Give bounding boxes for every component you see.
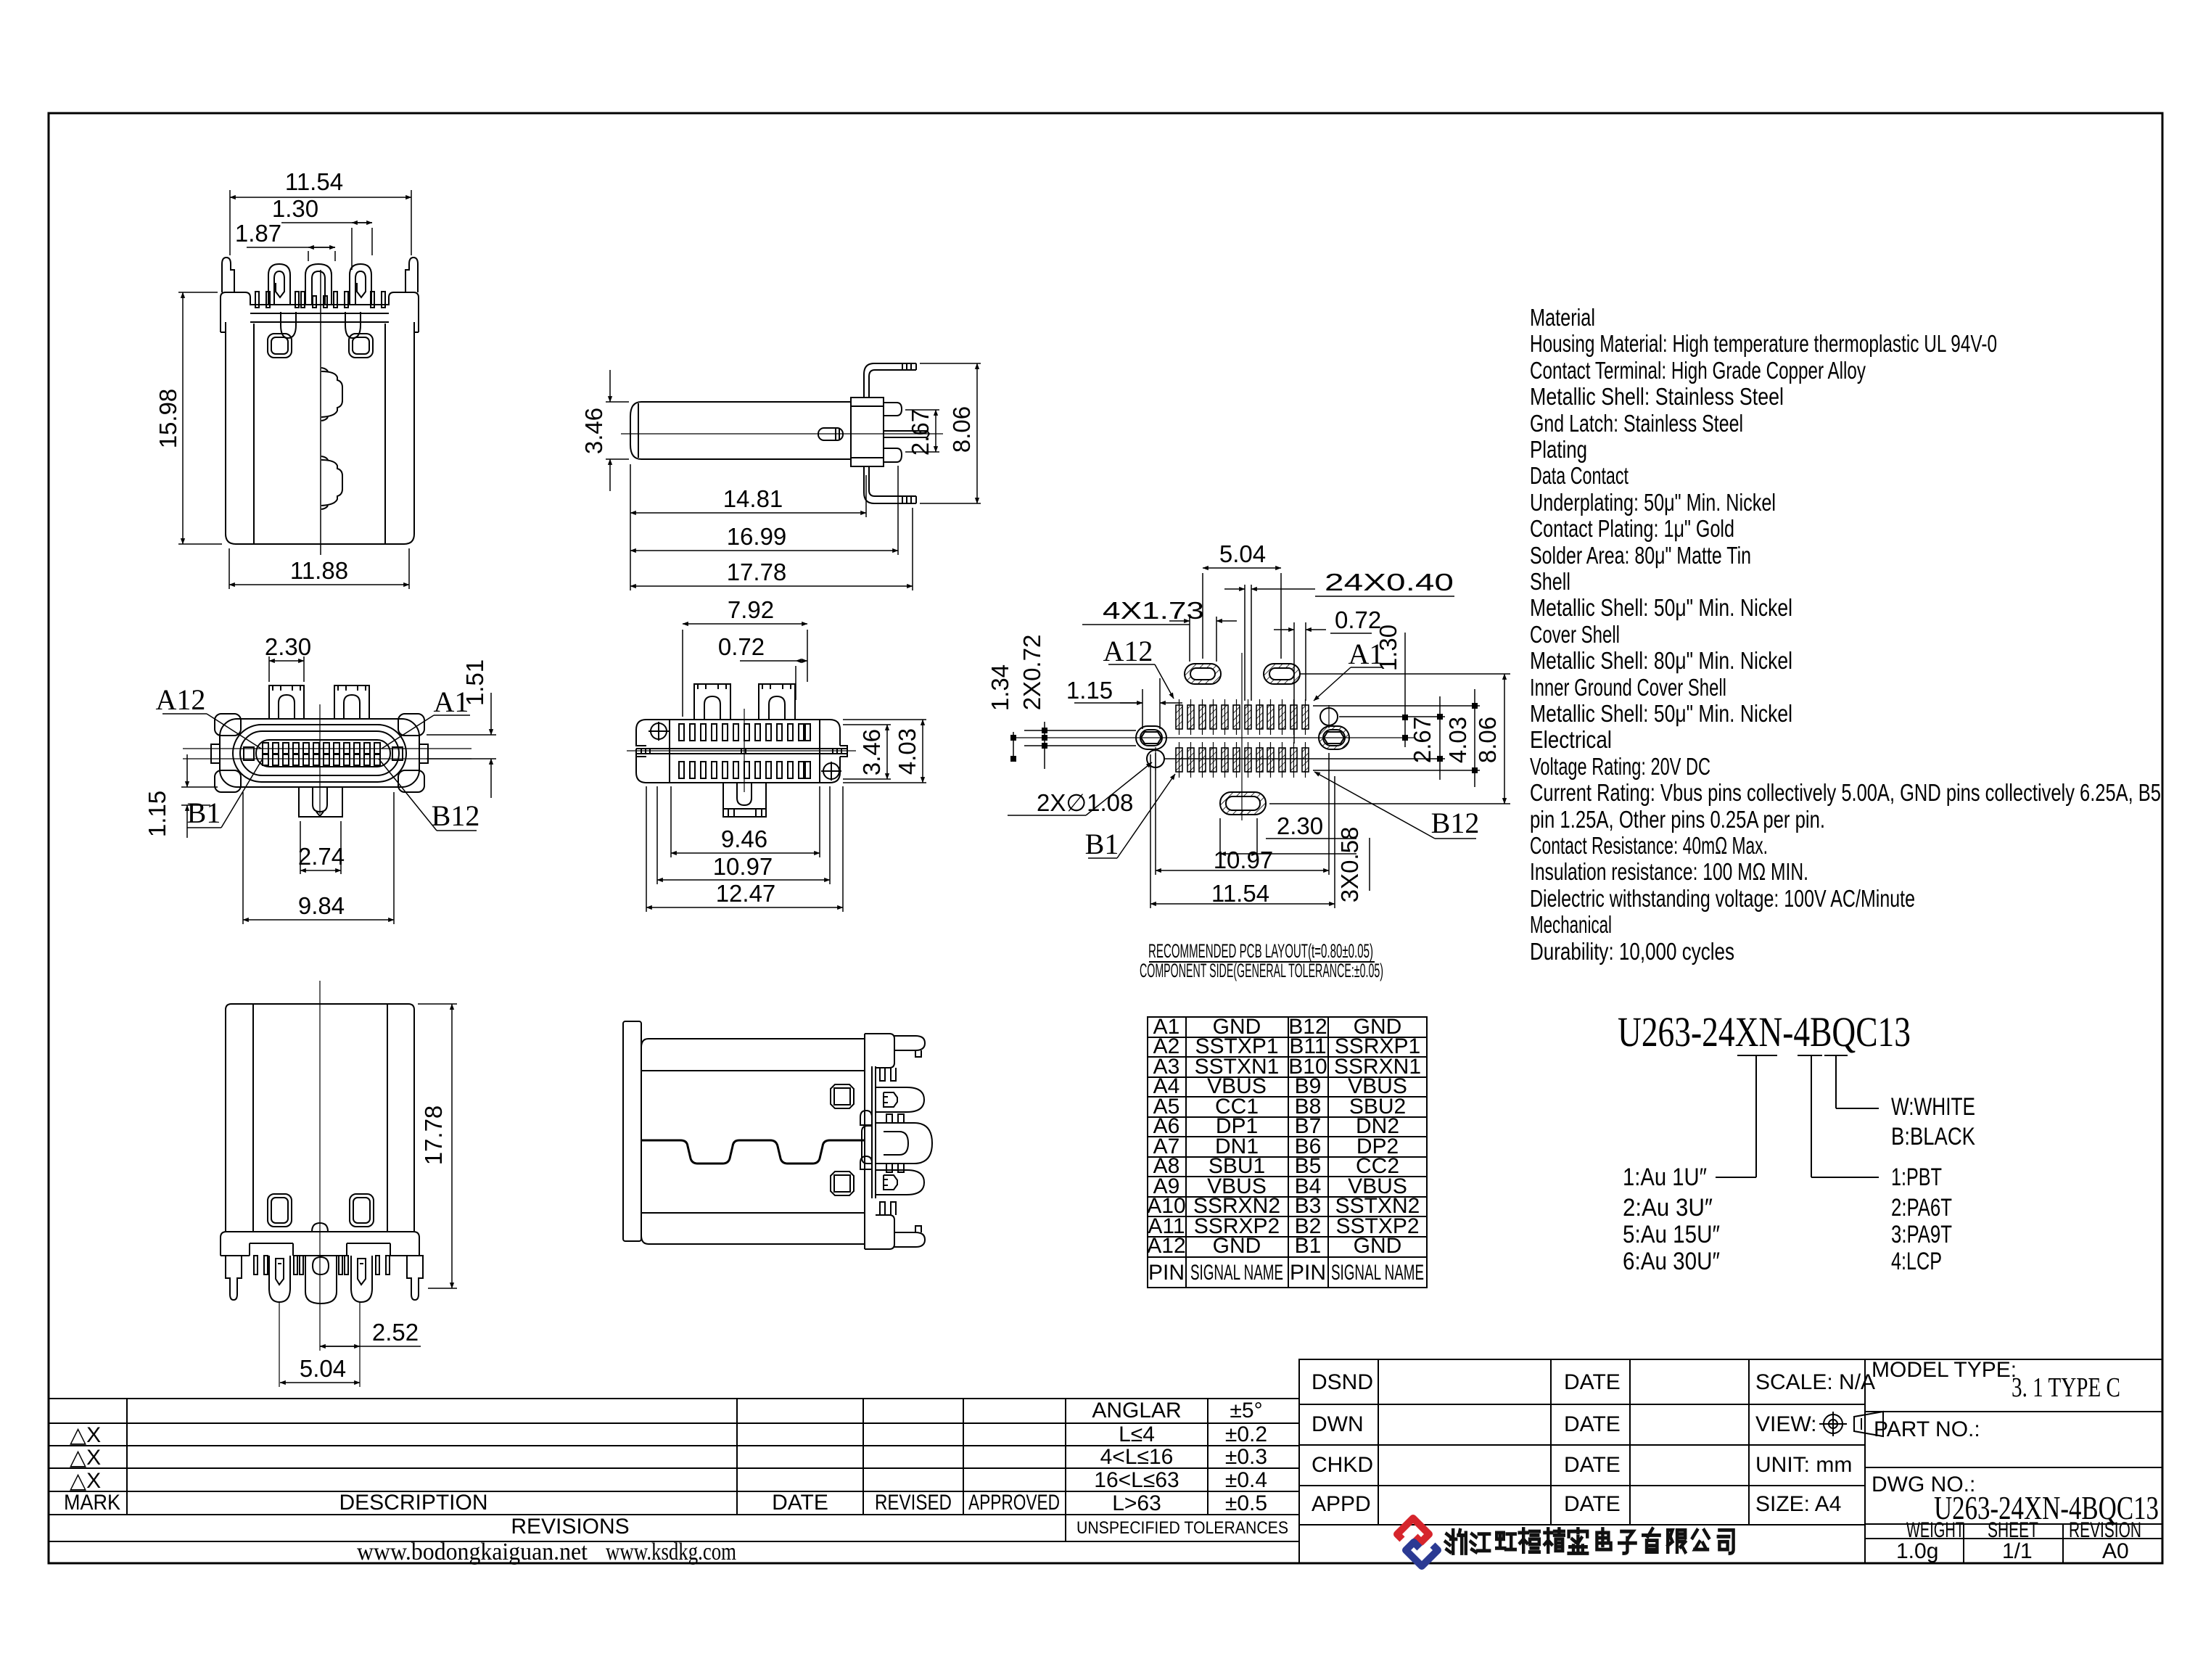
pcb side stadium left	[1136, 726, 1166, 749]
svg-text:±5°: ±5°	[1230, 1399, 1262, 1422]
svg-text:14.81: 14.81	[723, 485, 783, 512]
view1 latch hole left	[268, 334, 292, 358]
view6 latch square upper	[831, 1084, 854, 1108]
svg-text:L>63: L>63	[1112, 1491, 1161, 1515]
pcb side stadium right	[1319, 726, 1349, 749]
leader 2X1.08	[1008, 815, 1086, 816]
svg-text:Metallic Shell: Stainless Stee: Metallic Shell: Stainless Steel	[1530, 383, 1784, 410]
svg-text:DATE: DATE	[1564, 1370, 1621, 1394]
svg-text:DATE: DATE	[772, 1491, 828, 1515]
dim 4.03 (pcb)	[1313, 705, 1480, 707]
svg-text:L≤4: L≤4	[1119, 1422, 1155, 1446]
part number tree lines	[1737, 1055, 1777, 1056]
svg-text:11.88: 11.88	[290, 557, 348, 584]
svg-text:8.06: 8.06	[1474, 717, 1501, 763]
svg-text:Contact Terminal: High Grade C: Contact Terminal: High Grade Copper Allo…	[1530, 357, 1866, 384]
pcb pad centerlines	[1179, 699, 1306, 778]
svg-text:DATE: DATE	[1564, 1453, 1621, 1477]
view1 mid prong right	[350, 264, 371, 305]
svg-text:3:PA9T: 3:PA9T	[1891, 1221, 1952, 1248]
svg-text:16<L≤63: 16<L≤63	[1094, 1468, 1179, 1492]
pcb leader A12	[1108, 664, 1155, 665]
svg-text:17.78: 17.78	[727, 559, 787, 585]
svg-text:DESCRIPTION: DESCRIPTION	[339, 1491, 487, 1515]
dim 1.15 (pcb)	[1142, 689, 1143, 729]
view5 pin row top	[679, 724, 810, 741]
svg-text:REVISIONS: REVISIONS	[511, 1515, 629, 1539]
svg-text:PIN: PIN	[1148, 1261, 1185, 1285]
view5 pin row bottom	[679, 762, 810, 778]
svg-text:DWN: DWN	[1312, 1412, 1364, 1436]
svg-text:COMPONENT SIDE(GENERAL TOLER: COMPONENT SIDE(GENERAL TOLERANCE:±0.05)	[1140, 960, 1383, 981]
svg-text:5:Au 15U″: 5:Au 15U″	[1623, 1221, 1720, 1248]
svg-text:Cover Shell: Cover Shell	[1530, 621, 1620, 648]
view2 top tab left	[269, 685, 304, 719]
svg-text:GND: GND	[1354, 1234, 1402, 1258]
svg-text:Contact Resistance: 40mΩ Max.: Contact Resistance: 40mΩ Max.	[1530, 832, 1768, 859]
view4 centerline	[621, 433, 943, 435]
material specification text	[1530, 304, 2161, 965]
svg-text:1:PBT: 1:PBT	[1891, 1164, 1942, 1191]
svg-text:W:WHITE: W:WHITE	[1891, 1093, 1975, 1121]
dim 4.03 (view5)	[843, 719, 926, 720]
view3 stub pins	[254, 1256, 390, 1275]
title block left columns	[1378, 1359, 1379, 1525]
svg-text:6:Au 30U″: 6:Au 30U″	[1623, 1248, 1720, 1275]
svg-text:APPROVED: APPROVED	[968, 1491, 1060, 1515]
pin table text	[1147, 1015, 1424, 1285]
pcb leader A1	[1351, 667, 1382, 668]
svg-text:Electrical: Electrical	[1530, 726, 1612, 753]
svg-text:17.78: 17.78	[420, 1105, 447, 1166]
svg-text:△X: △X	[70, 1469, 101, 1493]
svg-text:1.87: 1.87	[235, 220, 281, 247]
view2 shell ears	[215, 714, 241, 736]
dim 16.99	[897, 466, 899, 555]
dim 15.98	[178, 292, 218, 293]
svg-text:B12: B12	[432, 799, 480, 832]
svg-text:1.30: 1.30	[272, 195, 318, 222]
company logo	[1397, 1518, 1438, 1566]
svg-text:Durability: 10,000 cycles: Durability: 10,000 cycles	[1530, 938, 1734, 965]
dim 17.78 (view3)	[418, 1003, 457, 1005]
svg-text:Plating: Plating	[1530, 436, 1587, 463]
view6 bottom foot	[865, 1215, 894, 1249]
view5 bottom tab	[723, 783, 766, 809]
svg-text:2X0.72: 2X0.72	[1018, 635, 1045, 711]
pin assignment table grid	[1148, 1017, 1427, 1288]
view4 top bracket	[864, 363, 916, 398]
view6 body	[641, 1039, 865, 1244]
svg-text:Solder Area: 80μ" Matte Tin: Solder Area: 80μ" Matte Tin	[1530, 542, 1751, 569]
svg-text:4<L≤16: 4<L≤16	[1100, 1445, 1174, 1469]
view6 break line	[641, 1140, 865, 1164]
view1 top flange	[221, 292, 419, 332]
view4 lower nub	[884, 448, 902, 462]
view5 mid seam	[636, 748, 847, 749]
title block right rows	[1865, 1411, 2162, 1412]
svg-text:pin 1.25A, Other pins 0.25A pe: pin 1.25A, Other pins 0.25A per pin.	[1530, 806, 1825, 833]
view1 shell body	[226, 322, 414, 544]
svg-text:SCALE: N/A: SCALE: N/A	[1755, 1370, 1875, 1394]
pcb hole circle left	[1147, 750, 1164, 767]
view5 screw circle left	[651, 723, 667, 739]
svg-text:2X∅1.08: 2X∅1.08	[1037, 789, 1133, 816]
dim 2.52	[320, 1346, 421, 1347]
dim 0.72 (view5)	[795, 666, 796, 700]
svg-text:±0.4: ±0.4	[1225, 1468, 1267, 1492]
dim 11.54 (pcb)	[1150, 754, 1151, 908]
svg-text:16.99: 16.99	[727, 523, 787, 550]
view2 contact row	[263, 743, 380, 754]
view3 foot left	[226, 1256, 242, 1300]
svg-text:Shell: Shell	[1530, 568, 1570, 595]
svg-text:4.03: 4.03	[894, 728, 921, 775]
dim 4X1.73	[1189, 617, 1190, 662]
pcb captions	[1140, 940, 1383, 981]
svg-text:Mechanical: Mechanical	[1530, 911, 1612, 938]
view4 upper nub	[884, 403, 902, 416]
svg-text:10.97: 10.97	[1214, 847, 1274, 873]
view4 housing block	[851, 398, 884, 466]
svg-text:www.bodongkaiguan.net: www.bodongkaiguan.net	[357, 1539, 588, 1565]
svg-text:MODEL TYPE:: MODEL TYPE:	[1872, 1358, 2017, 1382]
svg-text:9.46: 9.46	[721, 825, 767, 852]
view2 leader B1	[187, 827, 221, 828]
dim 9.46	[670, 786, 672, 857]
svg-text:4X1.73: 4X1.73	[1103, 597, 1204, 624]
svg-text:Material: Material	[1530, 304, 1595, 331]
dim 1.87	[308, 251, 309, 261]
svg-text:DATE: DATE	[1564, 1412, 1621, 1436]
svg-text:Gnd Latch: Stainless Steel: Gnd Latch: Stainless Steel	[1530, 410, 1743, 437]
dim 0.72 (pcb)	[1293, 622, 1295, 744]
svg-text:△X: △X	[70, 1423, 101, 1447]
dim 8.06 (pcb)	[1300, 673, 1510, 675]
svg-text:2.30: 2.30	[1277, 812, 1323, 839]
dim 2.30	[268, 656, 270, 682]
view3 latch hole left	[268, 1194, 292, 1227]
svg-text:B1: B1	[187, 796, 221, 829]
view3 centerlines	[279, 981, 360, 1387]
view2 centerlines	[183, 704, 472, 814]
view3 latch hole right	[350, 1194, 374, 1227]
dim 5.04 (pcb)	[1202, 573, 1203, 659]
svg-text:B1: B1	[1295, 1234, 1322, 1258]
view1 mid prong left	[268, 264, 290, 305]
view4 bottom bracket	[864, 466, 916, 503]
view3 body	[226, 1004, 414, 1232]
view6 top prong	[876, 1087, 924, 1112]
view6 bump lower	[860, 1156, 872, 1169]
svg-text:2.52: 2.52	[372, 1319, 419, 1346]
svg-text:Current Rating: Vbus pins coll: Current Rating: Vbus pins collectively 5…	[1530, 779, 2161, 806]
view3 U prong center	[305, 1256, 337, 1304]
svg-text:2.67: 2.67	[907, 409, 934, 456]
view1 mid prong center	[305, 264, 332, 305]
svg-text:REVISED: REVISED	[875, 1491, 952, 1515]
view4 middle pin	[884, 431, 929, 437]
view3 center dome	[312, 1223, 328, 1232]
dim 2.74	[300, 821, 301, 874]
svg-text:Housing Material: High tempera: Housing Material: High temperature therm…	[1530, 330, 1997, 357]
pcb leader B1	[1088, 857, 1117, 859]
dim 1.51	[427, 734, 496, 736]
view2 leader A1	[434, 715, 470, 716]
svg-text:±0.3: ±0.3	[1225, 1445, 1267, 1469]
svg-text:1.34: 1.34	[987, 664, 1013, 711]
svg-text:1.51: 1.51	[461, 659, 488, 706]
dim 3.46 (view5)	[843, 724, 891, 725]
dim 9.84	[242, 792, 244, 924]
svg-text:ANGLAR: ANGLAR	[1092, 1399, 1181, 1422]
dim 24X0.40	[1244, 585, 1246, 701]
dim 5.04	[280, 1382, 360, 1383]
svg-text:1.0g: 1.0g	[1896, 1539, 1938, 1563]
svg-text:PART NO.:: PART NO.:	[1874, 1417, 1980, 1441]
dim 1.30	[351, 228, 353, 270]
svg-text:±0.2: ±0.2	[1225, 1422, 1267, 1446]
svg-text:8.06: 8.06	[948, 406, 975, 453]
pcb pad rows	[1176, 705, 1309, 772]
svg-text:2.67: 2.67	[1409, 717, 1436, 763]
view1 fork upper	[321, 368, 342, 421]
svg-text:UNSPECIFIED TOLERANCES: UNSPECIFIED TOLERANCES	[1076, 1518, 1288, 1538]
view2 end contacts	[244, 747, 254, 760]
view6 bump upper	[860, 1111, 872, 1125]
svg-text:9.84: 9.84	[298, 892, 345, 919]
view6 flange bar	[623, 1021, 641, 1241]
part code option lists	[1623, 1093, 1975, 1275]
dim 3.46 (view4)	[606, 401, 629, 403]
view1 outer prong right	[405, 258, 418, 292]
svg-text:SIGNAL NAME: SIGNAL NAME	[1331, 1261, 1424, 1285]
svg-text:4.03: 4.03	[1444, 717, 1471, 763]
dim 1.34 / 2X0.72 (pcb left)	[1024, 730, 1136, 731]
view6 center prong	[862, 1126, 872, 1164]
view1 rivet posts	[281, 312, 296, 338]
svg-text:Voltage Rating: 20V DC: Voltage Rating: 20V DC	[1530, 753, 1710, 780]
company name (CJK strokes)	[1446, 1529, 1734, 1554]
svg-text:UNIT: mm: UNIT: mm	[1755, 1453, 1852, 1477]
view4 latch bump	[818, 428, 843, 440]
view2 outer shell	[220, 719, 419, 787]
view6 latch square lower	[831, 1172, 854, 1195]
dim 1.30 (pcb)	[1404, 633, 1406, 747]
view1 outer prong left	[222, 258, 234, 292]
dim 2.30 (pcb)	[1219, 818, 1221, 858]
view6 bottom prong	[876, 1170, 924, 1195]
pcb leader B12	[1435, 838, 1476, 839]
svg-text:2.30: 2.30	[265, 633, 311, 660]
dim 2.67 (view4)	[905, 409, 939, 411]
view6 right wall	[871, 1066, 873, 1198]
svg-text:VIEW:: VIEW:	[1755, 1412, 1816, 1436]
svg-text:3. 1 TYPE C: 3. 1 TYPE C	[2012, 1372, 2120, 1403]
view2 top tab right	[334, 685, 369, 719]
svg-text:B:BLACK: B:BLACK	[1891, 1123, 1975, 1150]
svg-text:1.15: 1.15	[144, 791, 170, 837]
svg-text:GND: GND	[1213, 1234, 1261, 1258]
svg-text:APPD: APPD	[1312, 1492, 1371, 1516]
svg-text:U263-24XN-4BQC13: U263-24XN-4BQC13	[1618, 1008, 1911, 1055]
view2 leader A12	[162, 713, 207, 715]
view3 feet flange	[221, 1232, 419, 1256]
svg-text:7.92: 7.92	[728, 596, 774, 623]
view5 top tab left	[694, 684, 730, 720]
svg-text:2:Au 3U″: 2:Au 3U″	[1623, 1194, 1713, 1222]
svg-text:5.04: 5.04	[1219, 540, 1266, 567]
svg-text:Dielectric withstanding voltag: Dielectric withstanding voltage: 100V AC…	[1530, 885, 1915, 912]
pcb hole circle right	[1320, 708, 1338, 725]
pcb bottom oval	[1220, 792, 1266, 815]
view5 screw circle right	[823, 763, 839, 779]
svg-text:Metallic Shell: 50μ" Min. Nick: Metallic Shell: 50μ" Min. Nickel	[1530, 700, 1792, 727]
svg-text:3.46: 3.46	[858, 729, 885, 775]
view1 centerline	[320, 270, 321, 555]
dim 2.67 (pcb)	[1165, 758, 1445, 759]
svg-text:5.04: 5.04	[300, 1355, 346, 1382]
svg-text:CHKD: CHKD	[1312, 1453, 1373, 1477]
svg-text:Contact Plating: 1μ" Gold: Contact Plating: 1μ" Gold	[1530, 515, 1734, 542]
view4 tube body	[630, 402, 851, 459]
svg-text:24X0.40: 24X0.40	[1325, 569, 1454, 596]
svg-text:A12: A12	[156, 683, 206, 716]
dim 1.15	[181, 786, 218, 788]
svg-text:1:Au 1U″: 1:Au 1U″	[1623, 1164, 1707, 1191]
revisions and tolerance table grid	[49, 1398, 1299, 1399]
view5 top tab right	[759, 684, 795, 720]
dim 7.92	[682, 630, 683, 717]
svg-text:1/1: 1/1	[2002, 1539, 2033, 1563]
svg-text:12.47: 12.47	[716, 880, 776, 907]
svg-text:3.46: 3.46	[580, 408, 607, 454]
svg-text:PIN: PIN	[1290, 1261, 1326, 1285]
view6 top foot	[865, 1034, 894, 1068]
svg-text:B12: B12	[1431, 807, 1480, 839]
svg-text:Inner Ground Cover Shell: Inner Ground Cover Shell	[1530, 674, 1726, 701]
svg-text:△X: △X	[70, 1446, 101, 1470]
svg-text:SIGNAL NAME: SIGNAL NAME	[1190, 1261, 1283, 1285]
svg-text:A12: A12	[1103, 635, 1153, 667]
dim 17.78 (view4)	[912, 508, 913, 590]
svg-text:RECOMMENDED PCB LAYOUT(t=0.8: RECOMMENDED PCB LAYOUT(t=0.80±0.05)	[1148, 940, 1373, 962]
svg-text:0.72: 0.72	[718, 633, 765, 660]
svg-text:2:PA6T: 2:PA6T	[1891, 1194, 1952, 1222]
svg-text:MARK: MARK	[64, 1491, 120, 1515]
view2 leader B12	[437, 830, 477, 831]
svg-text:Data Contact: Data Contact	[1530, 462, 1629, 489]
dim 14.81	[630, 464, 631, 590]
svg-text:SIZE: A4: SIZE: A4	[1755, 1492, 1841, 1516]
view3 U prong right	[351, 1256, 372, 1302]
title block row lines	[1299, 1404, 1865, 1405]
view2 stadium outer	[233, 725, 406, 782]
view1 stub pins	[255, 292, 385, 308]
title block outline	[1299, 1359, 2162, 1563]
svg-text:Metallic Shell: 80μ" Min. Nick: Metallic Shell: 80μ" Min. Nickel	[1530, 647, 1792, 674]
view2 stadium inner	[240, 731, 399, 775]
svg-text:1.15: 1.15	[1066, 677, 1113, 704]
svg-text:15.98: 15.98	[155, 389, 181, 449]
pcb top oval right	[1264, 664, 1300, 684]
svg-text:11.54: 11.54	[1211, 880, 1269, 907]
svg-text:Insulation resistance: 100 MΩ: Insulation resistance: 100 MΩ MIN.	[1530, 858, 1808, 885]
view5 centerlines	[627, 709, 856, 792]
dim 11.54	[229, 190, 231, 255]
svg-text:DSND: DSND	[1312, 1370, 1373, 1394]
svg-text:A12: A12	[1147, 1234, 1185, 1258]
pcb centerlines	[1013, 653, 1415, 820]
view2 bottom tab	[299, 787, 342, 817]
view2 tongue	[256, 740, 390, 767]
svg-text:11.54: 11.54	[285, 168, 343, 195]
view1 fork lower	[321, 456, 342, 509]
dim 8.06 (view4)	[920, 363, 981, 364]
svg-text:3X0.58: 3X0.58	[1336, 827, 1363, 903]
dim 10.97 (view5)	[656, 786, 658, 884]
svg-text:4:LCP: 4:LCP	[1891, 1248, 1942, 1275]
svg-text:DATE: DATE	[1564, 1492, 1621, 1516]
pcb top oval left	[1185, 664, 1221, 684]
svg-text:B1: B1	[1085, 828, 1119, 860]
dim 3X0.58 line	[1369, 838, 1370, 891]
view3 foot right	[407, 1256, 423, 1300]
svg-text:10.97: 10.97	[713, 853, 773, 880]
svg-text:2.74: 2.74	[298, 843, 345, 870]
dim 11.88	[228, 548, 230, 589]
svg-text:A0: A0	[2102, 1539, 2129, 1563]
svg-text:Metallic Shell: 50μ" Min. Nick: Metallic Shell: 50μ" Min. Nickel	[1530, 594, 1792, 621]
svg-text:±0.5: ±0.5	[1225, 1491, 1267, 1515]
view5 body outline	[636, 720, 820, 783]
dim 12.47	[646, 786, 647, 912]
view1 latch hole right	[349, 334, 373, 358]
dim 10.97 (pcb)	[1155, 753, 1156, 875]
svg-text:Underplating: 50μ" Min. Nickel: Underplating: 50μ" Min. Nickel	[1530, 489, 1776, 516]
view3 U prong left	[269, 1256, 290, 1302]
svg-text:A1: A1	[1349, 638, 1384, 670]
third-angle projection symbol	[1819, 1412, 1883, 1436]
svg-text:www.ksdkg.com: www.ksdkg.com	[606, 1539, 736, 1565]
